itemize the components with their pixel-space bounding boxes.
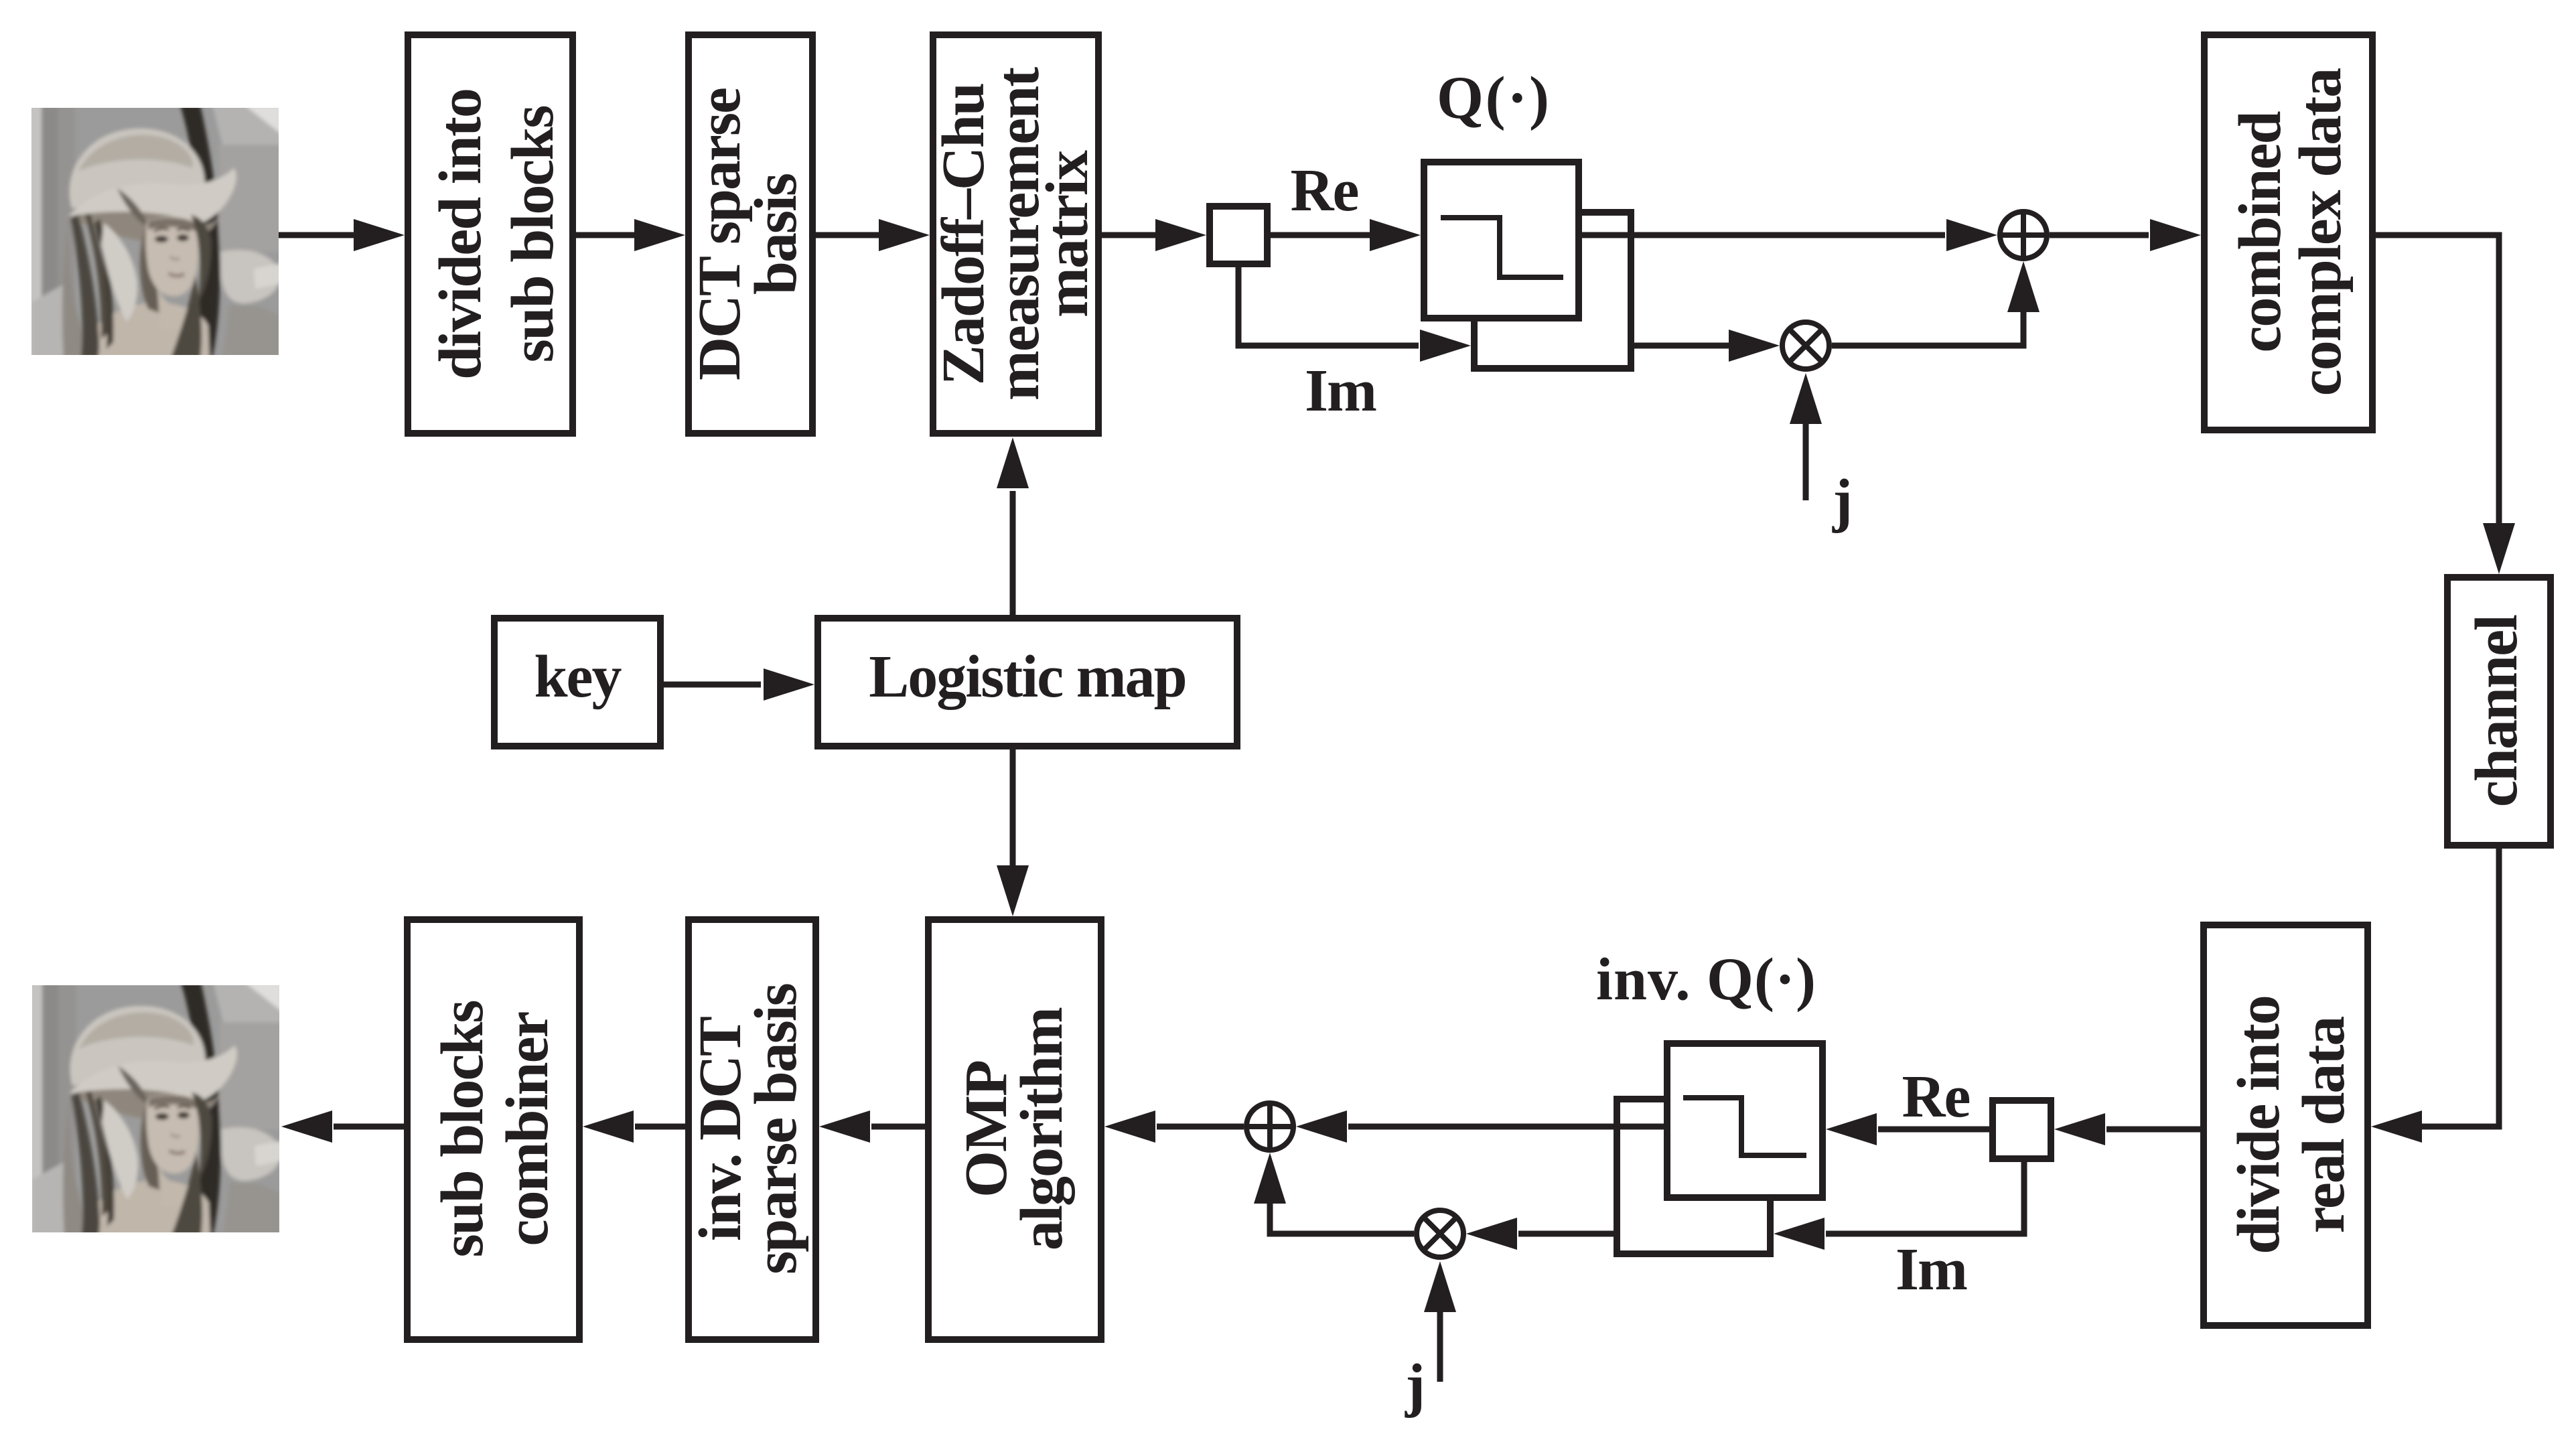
block: OMP algorithm: [928, 920, 1101, 1340]
wire: Re into inverse quantizer: [1878, 1127, 1989, 1133]
svg-text:Q(·): Q(·): [1437, 65, 1548, 131]
wire: inv quantizer Re out to adder (bottom): [1348, 1124, 1664, 1130]
node: splitter (bottom): [1993, 1100, 2051, 1159]
svg-text:real data: real data: [2291, 1017, 2357, 1234]
svg-text:basis: basis: [743, 174, 809, 295]
wire: Im drop (bottom): [1826, 1162, 2024, 1234]
svg-text:j: j: [1405, 1352, 1424, 1419]
wire: Logistic map up to measurement matrix: [1010, 491, 1016, 615]
svg-text:Im: Im: [1895, 1236, 1967, 1303]
original image (Lena): [29, 105, 283, 360]
wire: Im drop from splitter: [1238, 267, 1419, 346]
svg-text:key: key: [534, 644, 622, 710]
block: combined complex data: [2204, 35, 2372, 430]
svg-text:divide into: divide into: [2226, 996, 2292, 1254]
svg-text:matrix: matrix: [1034, 150, 1100, 317]
svg-text:divided into: divided into: [427, 89, 494, 380]
svg-text:combined: combined: [2227, 111, 2293, 353]
svg-text:complex data: complex data: [2287, 68, 2354, 396]
multiplier (bottom): [1417, 1210, 1463, 1257]
wire: image to divided-into-sub-blocks: [279, 232, 358, 238]
block: key: [494, 618, 660, 746]
wire: adder to combined complex data: [2050, 232, 2149, 238]
wire: channel to divide into real data: [2419, 849, 2499, 1127]
block: channel: [2447, 577, 2551, 845]
block: inverse quantizer front box (Re): [1667, 1044, 1822, 1198]
block: Zadoff-Chu measurement matrix: [933, 35, 1098, 433]
node: complex splitter (top): [1210, 206, 1267, 264]
block: quantizer Q front box (Re): [1424, 162, 1579, 318]
block: inv. DCT sparse basis: [689, 920, 816, 1340]
wire: combined data to channel: [2376, 235, 2499, 523]
svg-text:algorithm: algorithm: [1009, 1007, 1075, 1250]
wire: Re into quantizer: [1271, 232, 1371, 238]
wire: multiplier to adder (top): [1832, 309, 2023, 346]
wire: quantized Im to multiplier: [1634, 343, 1729, 349]
symbol: inverse quantizer step curve: [1683, 1098, 1806, 1155]
svg-text:sub blocks: sub blocks: [500, 106, 566, 363]
svg-text:Im: Im: [1305, 358, 1376, 424]
wire: key to Logistic map: [664, 682, 761, 688]
block: divided into sub blocks: [408, 35, 573, 433]
block: sub blocks combiner: [407, 920, 579, 1340]
wire: combiner to reconstructed image: [334, 1124, 404, 1130]
adder (top): [2000, 212, 2047, 259]
wire: Logistic map down to OMP: [1010, 749, 1016, 867]
wire: j into multiplier (bottom): [1437, 1310, 1443, 1382]
svg-text:j: j: [1832, 468, 1851, 534]
svg-text:combiner: combiner: [494, 1011, 561, 1246]
reconstructed image (Lena): [29, 983, 283, 1237]
svg-text:sub blocks: sub blocks: [429, 1001, 496, 1258]
adder (bottom): [1246, 1103, 1293, 1150]
block: DCT sparse basis: [689, 35, 812, 433]
multiplier (top): [1782, 322, 1829, 369]
svg-text:Logistic map: Logistic map: [869, 644, 1186, 710]
wire: multiplier to adder (bottom): [1270, 1204, 1414, 1234]
wire: j into multiplier (top): [1803, 422, 1809, 500]
svg-text:channel: channel: [2463, 615, 2530, 807]
wire: divide block to splitter (bottom): [2106, 1127, 2200, 1133]
block: quantizer Q back box (Im): [1474, 212, 1631, 368]
wire: OMP to inv DCT: [871, 1124, 925, 1130]
wire: quantized Re to adder: [1582, 232, 1945, 238]
svg-text:Re: Re: [1902, 1064, 1970, 1130]
wire: to Zadoff-Chu measurement matrix: [816, 232, 880, 238]
wire: inv quantizer Im out to multiplier (bottom): [1518, 1231, 1614, 1237]
block: divide into real data: [2204, 925, 2368, 1325]
wire: to DCT sparse basis: [576, 232, 636, 238]
svg-text:Re: Re: [1291, 157, 1358, 224]
wire: adder to OMP algorithm: [1157, 1124, 1244, 1130]
symbol: quantizer step curve: [1441, 218, 1563, 277]
wire: to splitter node: [1102, 232, 1157, 238]
svg-text:sparse basis: sparse basis: [743, 984, 809, 1275]
wire: inv DCT to sub blocks combiner: [635, 1124, 685, 1130]
block: inverse quantizer back box (Im): [1617, 1099, 1770, 1254]
block: Logistic map: [818, 618, 1237, 746]
